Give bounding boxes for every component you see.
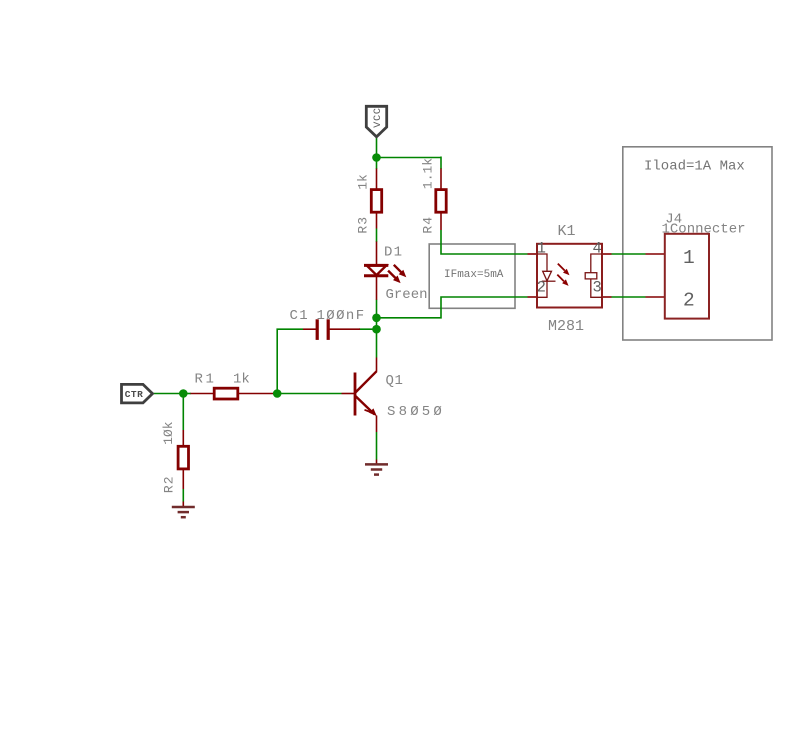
svg-text:R2: R2 (161, 475, 176, 493)
wire VCC stub (376, 138, 378, 158)
svg-text:Q1: Q1 (386, 373, 404, 389)
svg-text:3: 3 (593, 279, 602, 297)
svg-text:M281: M281 (548, 318, 584, 335)
note box Iload=1A Max (623, 147, 772, 340)
wire node E to R1 (183, 393, 191, 395)
resistor R2 (161, 421, 189, 493)
ground under R2 (172, 502, 195, 518)
port flag CTR (122, 384, 153, 403)
junction node E (179, 389, 188, 398)
wire R4 bottom to K1 pin1 run (441, 230, 528, 254)
wire CTR to node E (153, 393, 184, 395)
svg-text:R1: R1 (195, 371, 217, 387)
wire C1 to node C (359, 328, 377, 330)
wire R2 to ground (182, 489, 184, 502)
wire node D up to C1 (277, 329, 303, 393)
wire node B to K1 pin2 run (377, 297, 528, 318)
power flag VCC (366, 106, 386, 137)
junction node B (372, 314, 381, 323)
svg-text:Iload=1A Max: Iload=1A Max (644, 158, 745, 174)
svg-text:CTR: CTR (125, 389, 144, 400)
svg-text:1Øk: 1Øk (161, 421, 176, 445)
svg-text:IFmax=5mA: IFmax=5mA (444, 269, 504, 281)
resistor R4 (421, 158, 447, 234)
svg-text:1ØØnF: 1ØØnF (317, 308, 366, 324)
svg-text:2: 2 (683, 290, 695, 312)
svg-text:R4: R4 (421, 216, 436, 234)
junction node C (372, 325, 381, 334)
wire R1 to node D (273, 393, 277, 395)
wire node B to node C (376, 318, 378, 329)
wire K1 pin4 to J4 pin1 (612, 253, 646, 255)
svg-text:R3: R3 (356, 216, 371, 234)
optocoupler K1 (528, 223, 612, 335)
wire node C to collector (376, 329, 378, 357)
svg-text:1k: 1k (356, 174, 371, 190)
svg-text:1Connecter: 1Connecter (662, 222, 746, 238)
svg-text:1.1k: 1.1k (421, 158, 436, 189)
svg-text:S8Ø5Ø: S8Ø5Ø (387, 404, 445, 420)
wire node E down to R2 (182, 394, 184, 431)
resistor R3 (356, 169, 382, 234)
note box IFmax=5mA (429, 244, 515, 308)
svg-text:Green: Green (386, 287, 428, 303)
wire K1 pin3 to J4 pin2 (612, 296, 646, 298)
svg-text:1: 1 (683, 247, 695, 269)
svg-text:K1: K1 (558, 223, 576, 240)
svg-text:C1: C1 (290, 308, 310, 324)
wire D1 to node B (376, 300, 378, 319)
wire node D to Q1 base (277, 393, 341, 395)
svg-text:1: 1 (537, 239, 546, 257)
wire R4 top stub (440, 157, 442, 170)
svg-text:VCC: VCC (373, 107, 384, 127)
wire R3 to D1 (376, 229, 378, 243)
svg-text:2: 2 (537, 279, 546, 297)
junction node A (372, 153, 381, 162)
wire R3 top stub (376, 158, 378, 170)
svg-text:D1: D1 (384, 244, 403, 260)
wire emitter to ground (376, 432, 378, 460)
capacitor C1 (290, 308, 366, 340)
resistor R1 (191, 371, 274, 399)
transistor Q1 (342, 358, 446, 433)
connector J4 (646, 212, 746, 319)
LED D1 (364, 242, 428, 304)
svg-text:1k: 1k (233, 371, 250, 387)
ground under Q1 emitter (365, 460, 388, 475)
wire node A to R4 top (377, 157, 442, 159)
svg-text:4: 4 (593, 239, 602, 257)
junction node D (273, 389, 282, 398)
